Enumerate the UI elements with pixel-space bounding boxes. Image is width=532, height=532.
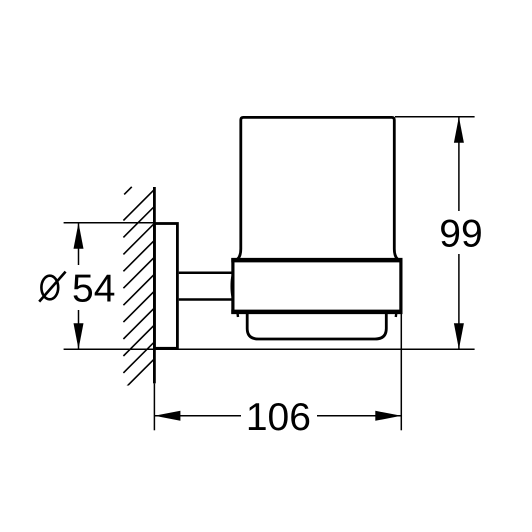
dimension 106: line [154, 415, 241, 417]
extension line: bottom (full width) [64, 348, 475, 350]
holder ring verticals [231, 258, 234, 314]
holder ring bottom edge [231, 310, 402, 315]
wall plate (rosette) [154, 224, 177, 349]
extension line: diameter top [64, 222, 153, 224]
dimension Ø54: line [78, 223, 80, 265]
dimension 99: up arrow [454, 117, 464, 143]
extension line: ring right (to 106 dim) [400, 314, 402, 431]
dimension Ø54: down arrow [74, 323, 84, 349]
dimension Ø54: label diameter symbol [39, 272, 65, 302]
joint arc [231, 274, 233, 300]
glass lower stub right [395, 313, 398, 317]
glass lower stub left [236, 313, 239, 317]
dimension 99: line [458, 117, 460, 211]
wall extension line (to 106 dim) [153, 383, 155, 430]
svg-text:106: 106 [246, 396, 311, 439]
extension line: glass top right [395, 116, 475, 118]
svg-text:99: 99 [439, 213, 482, 256]
glass upper body [238, 117, 398, 259]
glass lower body [247, 314, 386, 340]
arm top line [179, 271, 232, 274]
arm bottom line [179, 298, 232, 301]
dimension 106: left arrow [154, 411, 180, 421]
wall line [153, 187, 156, 383]
holder ring top edge [231, 258, 402, 263]
dimension 99: down arrow [454, 323, 464, 349]
svg-text:54: 54 [72, 268, 115, 311]
wall hatching [123, 187, 154, 390]
dimension Ø54: up arrow [74, 223, 84, 249]
dimension 106: right arrow [375, 411, 401, 421]
